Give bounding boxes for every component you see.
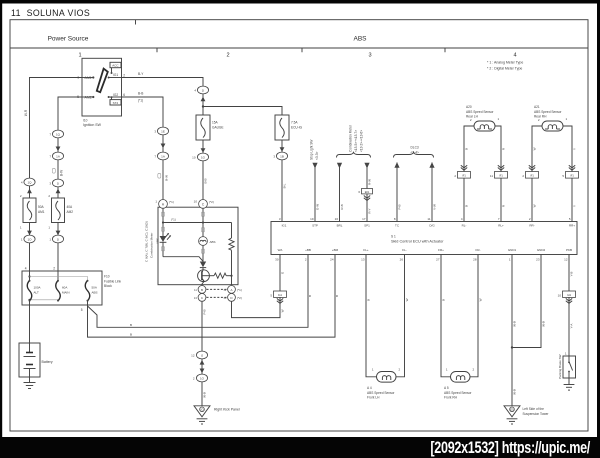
svg-text:4: 4	[25, 267, 27, 271]
wire 50A ABS to +BM (lower run)	[88, 255, 336, 338]
wire WA to meter	[232, 297, 281, 317]
svg-text:IO: IO	[201, 407, 204, 411]
svg-text:Y-B: Y-B	[570, 272, 574, 277]
ECU top pin SP1	[362, 217, 370, 228]
meter bottom connector A (*1 row)	[223, 286, 241, 294]
ECU bottom pin FL+	[361, 248, 369, 262]
svg-text:A20: A20	[466, 105, 472, 109]
svg-text:RL-: RL-	[462, 223, 467, 227]
svg-text:12: 12	[564, 258, 568, 262]
connector 1A on IG2 wire	[154, 152, 168, 160]
dashed link row2	[207, 296, 228, 298]
svg-text:B: B	[335, 295, 339, 297]
svg-text:B: B	[465, 148, 469, 150]
splice bracket	[202, 227, 205, 232]
svg-text:Block: Block	[104, 284, 112, 288]
svg-text:W: W	[533, 147, 537, 150]
svg-text:B: B	[130, 323, 132, 327]
ECU bottom pin +BB	[305, 248, 311, 262]
svg-text:3: 3	[368, 53, 371, 59]
wire from A into meter	[162, 208, 164, 222]
wire	[29, 223, 31, 236]
svg-text:2: 2	[53, 267, 55, 271]
connector IF1 on RR+ wire	[562, 172, 578, 179]
svg-text:Ignition SW: Ignition SW	[83, 123, 102, 127]
wire	[57, 160, 59, 179]
internal bus (*1)	[163, 222, 232, 224]
svg-text:R-Y: R-Y	[368, 208, 372, 213]
connector 1Q on AM1 wire	[21, 178, 35, 186]
ground right kick panel	[194, 406, 210, 424]
wire to combination meter C	[202, 161, 204, 200]
dashed link row1	[207, 288, 228, 290]
arrow up	[201, 97, 206, 102]
splice bracket	[202, 212, 205, 217]
splice bracket	[162, 246, 165, 251]
svg-text:A: A	[230, 288, 232, 292]
svg-text:10: 10	[194, 200, 198, 204]
meter bottom connector D (*2 row)	[223, 294, 241, 302]
connector 1I on IG1 wire	[194, 86, 208, 94]
svg-text:B-W: B-W	[165, 175, 169, 181]
wire to ECU pin IG1	[281, 160, 283, 222]
svg-text:11 SOLUNA VIOS: 11 SOLUNA VIOS	[11, 8, 90, 18]
block internal top bus	[28, 275, 87, 280]
wire to ECU RL-	[463, 178, 465, 221]
arrow down	[56, 231, 61, 236]
connector 1O on ground wire	[193, 374, 208, 382]
ECU bottom pin FL-	[400, 248, 407, 262]
svg-text:15A: 15A	[212, 121, 219, 125]
svg-text:IF1: IF1	[462, 174, 466, 178]
svg-text:ABS Speed Sensor: ABS Speed Sensor	[534, 110, 562, 114]
diode	[200, 262, 206, 268]
svg-text:ABS: ABS	[92, 290, 98, 294]
wire	[202, 140, 204, 153]
svg-text:Suspension Tower: Suspension Tower	[523, 412, 550, 416]
svg-text:16: 16	[335, 217, 339, 221]
svg-text:<13-5>+<13-7>: <13-5>+<13-7>	[354, 130, 358, 152]
arrow down	[161, 144, 166, 149]
svg-text:W-B: W-B	[513, 321, 517, 327]
svg-text:1B: 1B	[280, 154, 284, 158]
svg-text:P-B: P-B	[203, 309, 207, 314]
header band line	[10, 47, 588, 49]
svg-text:ALT: ALT	[34, 290, 39, 294]
svg-text:MAIN: MAIN	[62, 290, 70, 294]
svg-text:1I: 1I	[202, 88, 205, 92]
chevron junction below IH1	[566, 298, 572, 303]
brace combination meter over BRL SP1	[337, 152, 371, 157]
svg-text:ABS Speed Sensor: ABS Speed Sensor	[444, 391, 472, 395]
arrow up	[27, 189, 32, 194]
svg-text:1Q: 1Q	[56, 132, 61, 136]
svg-text:Rear RH: Rear RH	[534, 115, 547, 119]
svg-text:40A: 40A	[67, 205, 74, 209]
fuse 40A AM2	[48, 194, 73, 230]
junction node on bus	[202, 221, 204, 223]
svg-text:(*2): (*2)	[209, 200, 214, 204]
svg-text:A 4: A 4	[367, 386, 372, 390]
svg-text:Front LH: Front LH	[367, 396, 380, 400]
arrow down	[27, 231, 32, 236]
wire	[281, 140, 283, 152]
svg-text:B-L: B-L	[283, 183, 287, 188]
svg-text:2: 2	[123, 74, 125, 78]
chevron junction above IF1	[569, 165, 575, 170]
connector 1Q on AM2 wire	[49, 130, 63, 138]
svg-text:27: 27	[436, 258, 440, 262]
ECU bottom pin +BM	[330, 248, 338, 262]
svg-text:Fusible Link: Fusible Link	[104, 279, 121, 283]
svg-text:+BM: +BM	[332, 248, 339, 252]
wire meter ground drop	[201, 301, 203, 351]
svg-text:26: 26	[400, 258, 404, 262]
chevron junction below E01	[364, 196, 370, 201]
connector 1G below gauge fuse	[192, 153, 208, 161]
connector IJ on ground wire	[191, 351, 207, 359]
svg-text:+BB: +BB	[305, 248, 311, 252]
meter connector C	[194, 200, 214, 209]
wire D/G to DLC3	[431, 163, 433, 222]
svg-text:STP: STP	[312, 223, 318, 227]
svg-text:ST2: ST2	[113, 101, 119, 105]
ECU bottom pin FR+	[436, 248, 444, 262]
svg-text:ACC: ACC	[112, 64, 119, 68]
connector 1A on AM2 wire	[49, 152, 63, 160]
ECU top pin TC	[394, 217, 400, 228]
wire FR- to sensor A5	[470, 255, 478, 377]
ECU top pin IG1	[279, 217, 287, 228]
svg-text:FL-: FL-	[402, 248, 407, 252]
ABS warning LED	[160, 233, 171, 242]
brace DLC3 over TC D/G	[394, 152, 434, 157]
svg-text:1G: 1G	[201, 155, 206, 159]
svg-text:5: 5	[81, 308, 83, 312]
arrow down into STP wire	[312, 163, 317, 169]
svg-text:1A: 1A	[161, 154, 165, 158]
svg-text:IG1: IG1	[282, 223, 287, 227]
svg-text:(*1): (*1)	[169, 200, 174, 204]
svg-text:B-B: B-B	[138, 92, 143, 96]
svg-text:B-B: B-B	[204, 178, 208, 183]
svg-text:IG1: IG1	[278, 293, 283, 297]
svg-text:GND2: GND2	[537, 248, 546, 252]
wire STP from stop light SW	[314, 168, 316, 222]
wire AM1 to fusible link	[30, 78, 83, 179]
svg-text:W: W	[533, 204, 537, 207]
wire diode to transistor collector	[202, 268, 203, 273]
wire transistor emitter to connector B	[202, 281, 204, 285]
svg-text:W-B: W-B	[542, 321, 546, 327]
svg-text:BRL: BRL	[337, 223, 343, 227]
svg-text:IG1: IG1	[113, 73, 118, 77]
svg-text:* 1 : Analog Meter Type: * 1 : Analog Meter Type	[487, 61, 523, 65]
svg-text:1O: 1O	[200, 376, 205, 380]
svg-text:R-B: R-B	[340, 204, 344, 209]
svg-text:B: B	[367, 299, 371, 301]
left black border	[0, 0, 2, 458]
arrow up	[56, 189, 61, 194]
fusible link 100A ALT	[27, 280, 40, 302]
svg-text:PKB: PKB	[566, 248, 572, 252]
ECU top pin STP	[310, 217, 318, 228]
svg-text:(*1): (*1)	[171, 218, 176, 222]
arrow up out of D/G wire	[429, 162, 434, 168]
svg-text:10: 10	[558, 293, 562, 297]
splice bracket	[52, 168, 55, 173]
svg-text:IG2: IG2	[113, 93, 118, 97]
junction node IG1 feed	[202, 105, 204, 107]
svg-text:6: 6	[123, 93, 125, 97]
svg-text:Y: Y	[573, 148, 577, 150]
wire GND1 to ground	[511, 255, 513, 406]
svg-text:FL+: FL+	[363, 248, 369, 252]
junction node GND	[511, 346, 513, 348]
svg-text:A 5: A 5	[444, 386, 449, 390]
svg-text:1: 1	[78, 53, 81, 59]
connector 1I lower on AM2 wire	[49, 235, 63, 243]
wire GND2 joining GND1	[512, 255, 541, 348]
chevron junction above IF1	[529, 165, 535, 170]
ECU bottom pin GND2	[536, 248, 545, 262]
svg-text:60A: 60A	[62, 286, 67, 290]
svg-text:ABS Speed Sensor: ABS Speed Sensor	[367, 391, 395, 395]
meter right internal leg with resistor	[229, 223, 234, 286]
parking brake ground	[564, 378, 575, 390]
ABS warning bulb	[199, 237, 216, 246]
svg-text:B: B	[308, 295, 312, 297]
svg-text:AM1: AM1	[38, 210, 45, 214]
svg-text:(*2): (*2)	[237, 296, 242, 300]
ground left side suspension tower	[504, 406, 520, 424]
fusible link block F10	[22, 271, 102, 305]
svg-text:P-B: P-B	[398, 204, 402, 209]
arrow up	[200, 360, 205, 365]
wire WA from ECU	[279, 255, 281, 292]
wire IG2 output to meter A	[122, 97, 164, 127]
wire IG1 output	[122, 78, 204, 87]
splice bracket	[202, 249, 205, 254]
wire LED branch	[162, 223, 164, 237]
svg-text:R-W: R-W	[368, 179, 372, 185]
svg-text:17: 17	[362, 217, 366, 221]
svg-text:B: B	[201, 288, 203, 292]
svg-text:Front RH: Front RH	[444, 396, 458, 400]
svg-text:100A: 100A	[34, 286, 41, 290]
wire to ground	[201, 382, 203, 406]
connector IF1 on RL+ wire	[490, 172, 508, 179]
svg-text:Right Kick Panel: Right Kick Panel	[214, 408, 240, 412]
svg-text:AM2: AM2	[67, 210, 74, 214]
svg-text:4: 4	[513, 53, 516, 59]
svg-text:FR-: FR-	[476, 248, 481, 252]
connector IF1 on RR- wire	[522, 172, 538, 179]
wire	[29, 186, 31, 198]
ECU top pin RL+	[498, 217, 504, 228]
watermark bar	[0, 437, 600, 458]
wire FL+ to sensor A4	[366, 255, 377, 377]
svg-text:DLC3: DLC3	[411, 146, 419, 150]
svg-text:28: 28	[473, 258, 477, 262]
wire FL- to sensor A4	[396, 255, 405, 377]
ECU bottom pin PKB	[564, 248, 572, 262]
svg-text:ABS Speed Sensor: ABS Speed Sensor	[466, 110, 494, 114]
connector IF1 on RL- wire	[454, 172, 470, 179]
fusible link 50A ABS	[85, 280, 97, 302]
wire below LED	[162, 242, 164, 256]
ABS speed sensor front LH A4	[372, 367, 401, 382]
arrow up out of TC wire	[394, 162, 399, 168]
ECU bottom pin GND1	[508, 248, 517, 262]
arrow down into BRL wire	[337, 163, 342, 169]
svg-text:Rear LH: Rear LH	[466, 115, 479, 119]
wire LED branch to diode node	[163, 257, 203, 262]
ABS speed sensor rear LH A20	[470, 117, 500, 131]
svg-text:(*1): (*1)	[237, 288, 242, 292]
ECU bottom pin WA	[275, 248, 282, 262]
top black border	[0, 0, 600, 4]
svg-text:10: 10	[192, 156, 196, 160]
connector IG1 on WA wire	[270, 291, 286, 297]
svg-text:19: 19	[310, 217, 314, 221]
resistor to right leg	[202, 273, 232, 278]
svg-text:W: W	[405, 298, 409, 301]
fuse 7.5A ECU-IG	[275, 115, 303, 140]
svg-text:23: 23	[536, 258, 540, 262]
svg-text:F10: F10	[104, 275, 110, 279]
svg-text:GAUGE: GAUGE	[212, 125, 224, 129]
wire FR+ to sensor A5	[441, 255, 451, 377]
svg-text:1E: 1E	[161, 129, 165, 133]
connector 1I on AM2 wire	[49, 179, 63, 187]
wire PKB from ECU	[568, 255, 570, 292]
svg-text:[2092x1532] https://upic.me/: [2092x1532] https://upic.me/	[430, 439, 590, 457]
svg-text:GND1: GND1	[508, 248, 517, 252]
ABS speed sensor front RH A5	[446, 367, 475, 382]
svg-text:ABS: ABS	[353, 36, 367, 43]
svg-text:RL+: RL+	[498, 223, 504, 227]
svg-text:7.5A: 7.5A	[291, 121, 298, 125]
svg-text:WA: WA	[278, 248, 283, 252]
wire from C into meter	[202, 208, 204, 236]
connector 1O on AM1 wire	[21, 235, 35, 243]
arrow down into SP1 wire	[364, 163, 369, 169]
watermark text	[430, 439, 590, 457]
chevron junction below IG1	[277, 298, 283, 303]
ECU bottom pin FR-	[473, 248, 480, 262]
ABS speed sensor rear RH A21	[538, 117, 568, 131]
wire SP1 to ECU	[366, 194, 368, 222]
wire sensor A21 pin2 to RR-	[532, 126, 542, 172]
svg-text:Combination Meter: Combination Meter	[349, 124, 353, 152]
svg-text:Y-A: Y-A	[570, 324, 574, 329]
svg-text:IF1: IF1	[530, 174, 534, 178]
wire	[162, 160, 164, 200]
svg-text:B: B	[465, 205, 469, 207]
svg-text:50A: 50A	[38, 205, 45, 209]
svg-text:Skid Control ECU with Actuator: Skid Control ECU with Actuator	[391, 240, 444, 244]
svg-text:ABS: ABS	[156, 238, 160, 244]
svg-text:SP1: SP1	[364, 223, 370, 227]
transistor Q (meter)	[198, 270, 210, 282]
svg-text:<3-3>: <3-3>	[315, 152, 319, 160]
svg-text:13: 13	[361, 258, 365, 262]
wire BRL from combination meter	[339, 168, 341, 222]
wire sensor A21 pin1 to RR+	[563, 126, 572, 172]
svg-text:ECU-IG: ECU-IG	[291, 125, 303, 129]
svg-text:RR-: RR-	[529, 223, 534, 227]
svg-text:S 1: S 1	[391, 235, 396, 239]
battery	[19, 343, 53, 377]
junction node right leg	[230, 275, 232, 277]
svg-text:IF1: IF1	[499, 174, 503, 178]
svg-text:Stop Light SW: Stop Light SW	[310, 140, 314, 160]
svg-text:E01: E01	[365, 190, 370, 194]
svg-text:Battery: Battery	[42, 360, 53, 364]
svg-text:W: W	[479, 298, 483, 301]
chevron junction above IF1	[498, 165, 504, 170]
svg-text:B: B	[442, 299, 446, 301]
svg-text:I10: I10	[83, 118, 88, 122]
svg-text:(*1): (*1)	[138, 99, 143, 103]
svg-text:1I: 1I	[57, 237, 60, 241]
wire to ECU RR-	[531, 178, 533, 221]
svg-text:12: 12	[191, 354, 195, 358]
splice bracket	[158, 173, 161, 178]
wire branch to ECU-IG fuse	[203, 107, 282, 116]
svg-text:IH1: IH1	[567, 293, 572, 297]
svg-text:50A: 50A	[92, 286, 97, 290]
svg-text:A21: A21	[534, 105, 540, 109]
connector IH1 on PKB wire	[558, 291, 576, 297]
right black border	[597, 0, 600, 458]
meter connector A	[155, 200, 174, 209]
svg-text:RR+: RR+	[569, 223, 575, 227]
svg-text:IF1: IF1	[570, 174, 574, 178]
svg-text:* 2 : Digital Meter Type: * 2 : Digital Meter Type	[487, 66, 522, 70]
svg-text:C 9(A), C 7(B), C 9(C), C10(D): C 9(A), C 7(B), C 9(C), C10(D)	[145, 221, 149, 262]
wire down to gauge fuse	[202, 107, 204, 116]
wire 50A ABS to +BB (upper run)	[88, 255, 309, 328]
svg-text:11: 11	[427, 217, 430, 221]
meter bottom connector B (*1 row)	[194, 286, 206, 294]
wire TC to DLC3	[396, 163, 398, 222]
wire to ECU RR+	[571, 178, 573, 221]
wire below bulb	[202, 245, 204, 261]
svg-text:2: 2	[226, 53, 229, 59]
splice bracket	[162, 212, 165, 217]
fusible link 60A MAIN	[56, 280, 70, 302]
splice bracket	[162, 227, 165, 232]
wire SP1 from combination meter	[366, 168, 368, 189]
svg-text:1A: 1A	[56, 154, 60, 158]
svg-text:FR+: FR+	[438, 248, 444, 252]
svg-text:Combination Meter: Combination Meter	[150, 233, 154, 258]
svg-text:D/G: D/G	[429, 223, 435, 227]
wire sensor A20 pin1 to RL+	[495, 126, 501, 172]
svg-text:Y: Y	[573, 205, 577, 207]
svg-text:Parking Brake SW: Parking Brake SW	[558, 354, 562, 379]
svg-text:V-W: V-W	[433, 204, 437, 210]
svg-text:ABS: ABS	[210, 240, 216, 244]
wire PKB to parking brake SW	[568, 297, 570, 356]
wire into block pin 4	[29, 243, 31, 271]
arrow down into 1B	[280, 147, 285, 152]
svg-text:E5: E5	[510, 407, 514, 411]
ECU top pin RL-	[461, 217, 467, 228]
wire to ECU RL+	[500, 178, 502, 221]
